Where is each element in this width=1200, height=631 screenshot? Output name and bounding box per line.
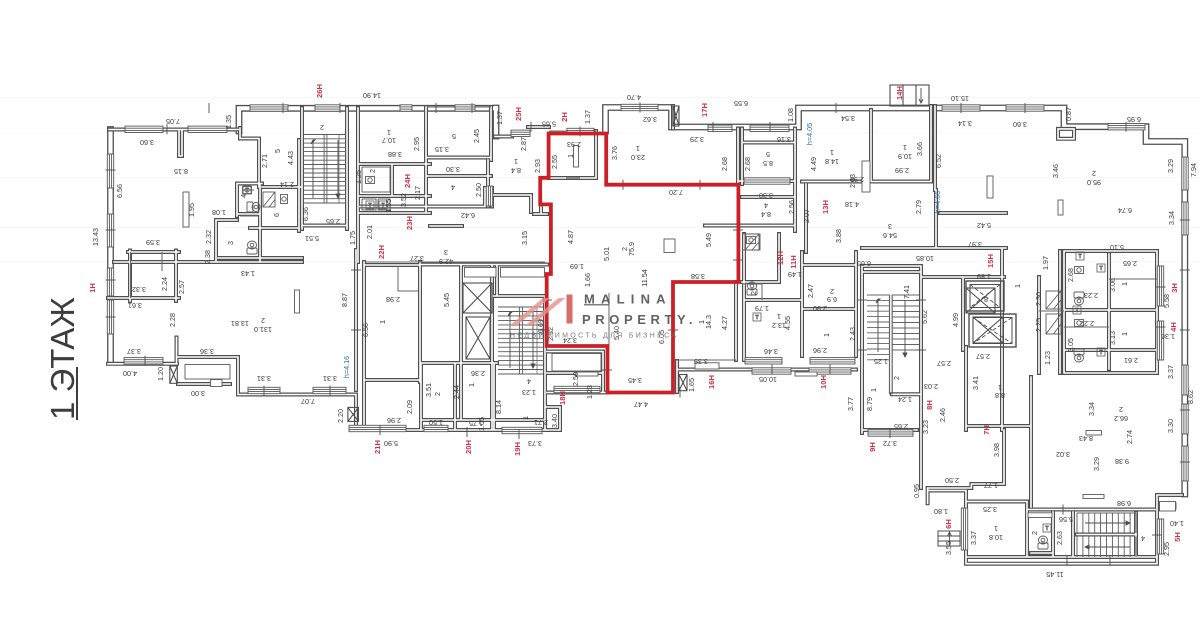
stairs <box>303 135 1136 558</box>
svg-text:3.73: 3.73 <box>528 439 542 448</box>
svg-text:25Н: 25Н <box>514 107 523 121</box>
svg-text:2.93: 2.93 <box>567 140 581 149</box>
svg-text:2.01: 2.01 <box>365 225 374 239</box>
svg-text:13Н: 13Н <box>821 200 830 214</box>
svg-text:3.88: 3.88 <box>388 150 402 159</box>
svg-text:2.68: 2.68 <box>743 157 752 171</box>
svg-text:T: T <box>1099 350 1102 356</box>
svg-text:1.75: 1.75 <box>348 231 357 245</box>
svg-text:2.25: 2.25 <box>1034 318 1043 332</box>
svg-text:14Н: 14Н <box>895 86 904 100</box>
svg-text:2.20: 2.20 <box>336 409 345 423</box>
svg-text:3.05: 3.05 <box>1066 338 1075 352</box>
svg-text:8.87: 8.87 <box>340 293 349 307</box>
svg-text:10.7: 10.7 <box>382 136 396 145</box>
svg-text:4: 4 <box>527 377 531 386</box>
svg-text:1: 1 <box>830 148 834 157</box>
svg-text:6.52: 6.52 <box>934 154 943 168</box>
svg-text:3Н: 3Н <box>1170 283 1179 293</box>
svg-text:2.57: 2.57 <box>937 359 951 368</box>
svg-text:2.99: 2.99 <box>895 166 909 175</box>
svg-text:3.39: 3.39 <box>694 357 708 366</box>
svg-text:3.23: 3.23 <box>921 420 930 434</box>
scan artifact lines <box>0 97 1200 99</box>
svg-text:9.38: 9.38 <box>1115 457 1129 466</box>
svg-text:T: T <box>368 203 371 209</box>
svg-text:1.23: 1.23 <box>1043 351 1052 365</box>
svg-text:3.16: 3.16 <box>777 135 791 144</box>
svg-text:1: 1 <box>903 143 907 152</box>
svg-text:3.29: 3.29 <box>1092 457 1101 471</box>
svg-text:7.20: 7.20 <box>669 188 683 197</box>
svg-text:1: 1 <box>1120 282 1129 286</box>
svg-text:4Н: 4Н <box>1169 322 1178 332</box>
svg-text:4.55: 4.55 <box>783 316 792 330</box>
svg-text:8.79: 8.79 <box>865 397 874 411</box>
svg-text:7.94: 7.94 <box>1189 163 1198 177</box>
red unit labels <box>88 84 1182 542</box>
svg-text:2: 2 <box>433 392 442 396</box>
svg-text:6Н: 6Н <box>944 519 953 529</box>
svg-text:2: 2 <box>1030 531 1039 535</box>
svg-text:2.36: 2.36 <box>471 369 485 378</box>
svg-text:3.60: 3.60 <box>1013 120 1027 129</box>
svg-text:2: 2 <box>892 376 901 380</box>
svg-text:1.69: 1.69 <box>570 262 584 271</box>
svg-text:3.06: 3.06 <box>1108 278 1117 292</box>
svg-text:19Н: 19Н <box>513 442 522 456</box>
svg-text:2.50: 2.50 <box>571 372 580 386</box>
svg-text:1.25: 1.25 <box>354 170 363 184</box>
dimension labels <box>91 91 1198 579</box>
svg-text:20Н: 20Н <box>464 440 473 454</box>
svg-text:2.17: 2.17 <box>413 186 422 200</box>
svg-text:3.30: 3.30 <box>1166 419 1175 433</box>
svg-text:3.46: 3.46 <box>1051 164 1060 178</box>
svg-text:21Н: 21Н <box>373 440 382 454</box>
svg-text:8.15: 8.15 <box>174 167 188 176</box>
svg-text:2Н: 2Н <box>560 112 569 122</box>
shafts / crossed boxes <box>170 106 1003 421</box>
svg-text:5.56: 5.56 <box>1059 515 1073 524</box>
svg-text:6.56: 6.56 <box>361 323 370 337</box>
svg-text:131.0: 131.0 <box>254 325 272 334</box>
svg-text:3.37: 3.37 <box>127 347 141 356</box>
svg-text:2.23: 2.23 <box>1084 291 1098 300</box>
svg-text:3.97: 3.97 <box>968 240 982 249</box>
pilaster slots <box>185 146 1176 518</box>
svg-text:2.57: 2.57 <box>177 280 186 294</box>
svg-text:2: 2 <box>830 287 834 296</box>
svg-text:T: T <box>755 315 758 321</box>
svg-text:2.43: 2.43 <box>848 327 857 341</box>
svg-text:2.65: 2.65 <box>1123 259 1137 268</box>
svg-text:4: 4 <box>239 194 248 198</box>
svg-text:3.34: 3.34 <box>1167 211 1176 225</box>
svg-text:3.15: 3.15 <box>435 145 449 154</box>
svg-text:MALINA: MALINA <box>584 292 672 307</box>
svg-text:3.30: 3.30 <box>446 165 460 174</box>
svg-text:1.40: 1.40 <box>1170 519 1184 528</box>
svg-text:2.50: 2.50 <box>945 476 959 485</box>
svg-text:2.55: 2.55 <box>550 155 559 169</box>
svg-text:6.42: 6.42 <box>461 211 475 220</box>
svg-text:2.71: 2.71 <box>534 418 548 427</box>
svg-text:6.95: 6.95 <box>1127 115 1141 124</box>
svg-text:2.14: 2.14 <box>280 180 294 189</box>
svg-text:3.15: 3.15 <box>520 231 529 245</box>
svg-text:8.43: 8.43 <box>1079 434 1093 443</box>
svg-text:2.61: 2.61 <box>1124 356 1138 365</box>
svg-text:10.8: 10.8 <box>989 533 1003 542</box>
svg-text:3.62: 3.62 <box>643 115 657 124</box>
svg-text:3.36: 3.36 <box>200 347 214 356</box>
red selection polygon <box>540 134 738 393</box>
svg-text:3.27: 3.27 <box>410 254 424 263</box>
svg-text:95.0: 95.0 <box>1087 178 1101 187</box>
svg-text:1: 1 <box>387 128 391 137</box>
svg-text:2.96: 2.96 <box>387 416 401 425</box>
svg-text:17Н: 17Н <box>700 103 709 117</box>
svg-text:3.13: 3.13 <box>1108 331 1117 345</box>
svg-text:h=4.66: h=4.66 <box>933 191 942 213</box>
svg-text:2.09: 2.09 <box>405 400 414 414</box>
svg-text:2.93: 2.93 <box>533 159 542 173</box>
svg-text:3.37: 3.37 <box>1166 365 1175 379</box>
svg-text:5.90: 5.90 <box>384 439 398 448</box>
svg-text:3.29: 3.29 <box>690 135 704 144</box>
svg-text:6.9: 6.9 <box>827 295 837 304</box>
svg-text:1.77: 1.77 <box>984 481 998 490</box>
svg-text:5.42: 5.42 <box>977 221 991 230</box>
svg-text:3.88: 3.88 <box>834 229 843 243</box>
svg-text:T: T <box>1075 308 1078 314</box>
entry steps 6H <box>938 531 960 546</box>
dimension ticks <box>106 103 1190 566</box>
svg-text:2.50: 2.50 <box>474 183 483 197</box>
svg-text:18Н: 18Н <box>558 391 567 405</box>
svg-text:13.43: 13.43 <box>91 228 100 246</box>
svg-text:3.31: 3.31 <box>257 374 271 383</box>
svg-text:2.24: 2.24 <box>160 277 169 291</box>
svg-text:10.9: 10.9 <box>898 152 912 161</box>
svg-text:T: T <box>245 188 248 194</box>
svg-text:1.37: 1.37 <box>583 110 592 124</box>
svg-text:3.76: 3.76 <box>610 146 619 160</box>
svg-text:1.35: 1.35 <box>224 115 233 129</box>
svg-text:3.25: 3.25 <box>983 505 997 514</box>
svg-text:3.31: 3.31 <box>323 374 337 383</box>
floor title 1 ЭТАЖ <box>44 297 81 420</box>
svg-text:1.23: 1.23 <box>522 388 536 397</box>
svg-text:2.87: 2.87 <box>519 137 528 151</box>
svg-text:14.90: 14.90 <box>363 91 381 100</box>
svg-text:3.66: 3.66 <box>915 142 924 156</box>
svg-text:1.08: 1.08 <box>212 208 226 217</box>
svg-text:1: 1 <box>869 388 878 392</box>
svg-text:8.5: 8.5 <box>763 159 773 168</box>
svg-text:3.59: 3.59 <box>146 238 160 247</box>
svg-text:2.57: 2.57 <box>976 352 990 361</box>
svg-text:4.87: 4.87 <box>566 230 575 244</box>
svg-text:11.54: 11.54 <box>640 269 649 286</box>
svg-text:1.66: 1.66 <box>583 273 592 287</box>
svg-text:2.46: 2.46 <box>938 408 947 422</box>
svg-text:1: 1 <box>994 524 998 533</box>
svg-text:НЕДВИЖИМОСТЬ ДЛЯ БИЗНЕСА: НЕДВИЖИМОСТЬ ДЛЯ БИЗНЕСА <box>510 333 678 340</box>
svg-text:2: 2 <box>261 316 265 325</box>
svg-text:1 ЭТАЖ: 1 ЭТАЖ <box>44 297 81 420</box>
svg-text:3.41: 3.41 <box>971 376 980 390</box>
svg-text:1: 1 <box>1120 332 1129 336</box>
svg-text:1.08: 1.08 <box>786 108 795 122</box>
svg-text:2.30: 2.30 <box>1034 292 1043 306</box>
svg-text:54.6: 54.6 <box>883 231 897 240</box>
svg-text:2.38: 2.38 <box>203 250 212 264</box>
svg-text:2: 2 <box>1092 169 1096 178</box>
svg-text:1.43: 1.43 <box>241 269 255 278</box>
svg-text:2.45: 2.45 <box>472 129 481 143</box>
svg-text:1: 1 <box>1013 284 1022 288</box>
svg-text:1: 1 <box>566 154 575 158</box>
svg-text:10Н: 10Н <box>819 375 828 389</box>
svg-text:8.62: 8.62 <box>1186 390 1195 404</box>
svg-text:8.14: 8.14 <box>494 400 503 414</box>
watermark logo (red mountain stripes) <box>509 295 573 327</box>
svg-text:15Н: 15Н <box>986 254 995 268</box>
wall symbols T-boxes <box>243 186 1105 532</box>
svg-text:12Н: 12Н <box>776 251 785 265</box>
svg-text:11.45: 11.45 <box>1046 570 1063 579</box>
svg-text:T: T <box>1045 526 1048 532</box>
svg-text:3.51: 3.51 <box>424 383 433 397</box>
svg-text:1.79: 1.79 <box>755 304 769 313</box>
bathroom fixtures <box>243 177 1085 550</box>
svg-text:1: 1 <box>777 312 781 321</box>
svg-text:1: 1 <box>998 383 1002 392</box>
svg-text:4.43: 4.43 <box>286 151 295 165</box>
svg-text:3.98: 3.98 <box>992 443 1001 457</box>
svg-text:4.70: 4.70 <box>627 93 641 102</box>
main interior walls (double line) <box>108 106 1182 564</box>
svg-text:8Н: 8Н <box>925 400 934 410</box>
svg-text:3.77: 3.77 <box>846 397 855 411</box>
svg-text:4.49: 4.49 <box>809 157 818 171</box>
svg-text:6: 6 <box>272 213 281 217</box>
svg-text:14.8: 14.8 <box>825 157 839 166</box>
svg-text:2.22: 2.22 <box>1080 319 1094 328</box>
svg-text:6.98: 6.98 <box>1117 499 1131 508</box>
svg-text:4.27: 4.27 <box>720 316 729 330</box>
svg-text:2: 2 <box>1119 405 1123 414</box>
svg-text:2.56: 2.56 <box>787 200 796 214</box>
svg-text:1.89: 1.89 <box>977 272 991 281</box>
svg-text:2.98: 2.98 <box>386 295 400 304</box>
svg-text:2.65: 2.65 <box>894 422 908 431</box>
svg-text:3: 3 <box>444 248 448 257</box>
svg-text:5.01: 5.01 <box>602 247 611 261</box>
svg-text:3.32: 3.32 <box>132 285 146 294</box>
svg-text:2.99: 2.99 <box>850 175 864 184</box>
svg-text:6.36: 6.36 <box>301 207 310 221</box>
watermark text MALINA PROPERTY <box>510 292 697 340</box>
svg-text:3.29: 3.29 <box>1166 159 1175 173</box>
svg-text:2.74: 2.74 <box>1125 430 1134 444</box>
svg-text:2.79: 2.79 <box>914 200 923 214</box>
svg-text:5.58: 5.58 <box>1162 294 1171 308</box>
svg-text:2.44: 2.44 <box>452 385 461 399</box>
svg-text:2.47: 2.47 <box>806 284 815 298</box>
svg-text:0.95: 0.95 <box>912 484 921 498</box>
svg-text:h=4.05: h=4.05 <box>805 123 814 145</box>
svg-text:4: 4 <box>764 201 768 210</box>
svg-text:42.9: 42.9 <box>439 257 453 266</box>
svg-text:1.55: 1.55 <box>384 199 393 213</box>
svg-text:22Н: 22Н <box>377 245 386 259</box>
svg-text:10.05: 10.05 <box>759 375 777 384</box>
svg-text:2.90: 2.90 <box>813 304 827 313</box>
svg-text:2: 2 <box>749 291 758 295</box>
svg-text:3.45: 3.45 <box>628 376 642 385</box>
svg-text:7.41: 7.41 <box>902 285 911 299</box>
svg-text:11Н: 11Н <box>789 255 798 269</box>
svg-text:3.34: 3.34 <box>1087 402 1096 416</box>
svg-text:T: T <box>1099 266 1102 272</box>
svg-text:3.46: 3.46 <box>764 347 778 356</box>
svg-text:7.07: 7.07 <box>301 397 315 406</box>
svg-text:3.52: 3.52 <box>399 193 408 207</box>
svg-text:2: 2 <box>320 123 324 132</box>
svg-text:24Н: 24Н <box>403 174 412 188</box>
svg-text:1: 1 <box>467 383 476 387</box>
svg-text:5Н: 5Н <box>1173 532 1182 542</box>
svg-text:3: 3 <box>226 241 235 245</box>
svg-text:2.96: 2.96 <box>813 346 827 355</box>
svg-text:2.28: 2.28 <box>168 313 177 327</box>
svg-text:1: 1 <box>514 157 518 166</box>
svg-text:PROPERTY.: PROPERTY. <box>582 312 697 327</box>
svg-text:2.71: 2.71 <box>260 154 269 168</box>
svg-text:8: 8 <box>984 295 988 304</box>
svg-text:4: 4 <box>1141 534 1145 543</box>
svg-text:15.10: 15.10 <box>951 94 969 103</box>
svg-text:3.02: 3.02 <box>1056 450 1070 459</box>
entry 14H <box>890 85 929 106</box>
svg-text:1.25: 1.25 <box>874 357 888 366</box>
svg-text:9Н: 9Н <box>868 442 877 452</box>
svg-text:3.60: 3.60 <box>140 138 154 147</box>
svg-text:5: 5 <box>766 150 770 159</box>
svg-text:13.81: 13.81 <box>231 319 249 328</box>
svg-text:3.54: 3.54 <box>841 114 855 123</box>
svg-text:23Н: 23Н <box>405 216 414 230</box>
elevator shafts <box>966 281 1016 347</box>
svg-text:3.37: 3.37 <box>969 531 978 545</box>
svg-text:4.47: 4.47 <box>634 400 648 409</box>
svg-text:5: 5 <box>273 149 282 153</box>
svg-text:5.51: 5.51 <box>305 234 319 243</box>
svg-text:7.05: 7.05 <box>166 117 180 126</box>
svg-text:2.63: 2.63 <box>1055 531 1064 545</box>
svg-text:3.14: 3.14 <box>958 119 972 128</box>
blue height labels <box>342 123 942 378</box>
svg-text:5.62: 5.62 <box>920 310 929 324</box>
svg-text:1.37: 1.37 <box>495 111 504 125</box>
svg-text:2.65: 2.65 <box>326 217 340 226</box>
showers <box>263 192 1061 334</box>
svg-text:8.4: 8.4 <box>761 210 771 219</box>
svg-text:1Н: 1Н <box>88 283 97 293</box>
exterior envelope walls (double band) <box>111 108 1185 495</box>
svg-text:2: 2 <box>368 169 377 173</box>
svg-text:1.05: 1.05 <box>477 417 486 431</box>
svg-text:1: 1 <box>521 416 530 420</box>
svg-text:5.49: 5.49 <box>704 233 713 247</box>
svg-text:1.20: 1.20 <box>156 367 165 381</box>
svg-text:5.65: 5.65 <box>542 120 556 129</box>
svg-text:2.68: 2.68 <box>1066 268 1075 282</box>
svg-text:3.58: 3.58 <box>691 272 705 281</box>
svg-text:1.24: 1.24 <box>898 395 912 404</box>
svg-text:h=4.16: h=4.16 <box>342 356 351 378</box>
thin partition walls <box>131 107 1158 513</box>
svg-text:1.65: 1.65 <box>687 378 696 392</box>
svg-text:2.32: 2.32 <box>204 230 213 244</box>
svg-text:6.74: 6.74 <box>1118 206 1132 215</box>
svg-text:3.30: 3.30 <box>759 191 773 200</box>
svg-text:26Н: 26Н <box>315 84 324 98</box>
svg-text:5.10: 5.10 <box>1110 243 1124 252</box>
svg-text:66.2: 66.2 <box>1114 414 1128 423</box>
svg-text:2.68: 2.68 <box>720 157 729 171</box>
svg-text:3: 3 <box>888 222 892 231</box>
svg-text:3.00: 3.00 <box>191 389 205 398</box>
svg-text:1.49: 1.49 <box>788 270 802 279</box>
stair arrows <box>311 140 1130 549</box>
svg-text:6.65: 6.65 <box>857 259 871 268</box>
svg-text:3.61: 3.61 <box>128 301 142 310</box>
svg-text:14.3: 14.3 <box>704 315 713 329</box>
windows horizontal <box>107 104 1188 554</box>
svg-text:5: 5 <box>452 132 456 141</box>
svg-text:1: 1 <box>636 144 640 153</box>
svg-text:75.9: 75.9 <box>627 242 636 256</box>
svg-text:1.23: 1.23 <box>585 385 594 399</box>
svg-text:10.85: 10.85 <box>916 254 934 263</box>
svg-text:1.50: 1.50 <box>429 418 443 427</box>
svg-text:23.0: 23.0 <box>631 153 645 162</box>
svg-text:4.18: 4.18 <box>845 200 859 209</box>
svg-text:4.00: 4.00 <box>123 369 137 378</box>
svg-text:8.8: 8.8 <box>995 391 1005 400</box>
svg-text:5.45: 5.45 <box>442 293 451 307</box>
svg-text:2.07: 2.07 <box>802 209 811 223</box>
svg-text:1: 1 <box>378 320 387 324</box>
svg-text:7Н: 7Н <box>982 425 991 435</box>
svg-text:3.40: 3.40 <box>550 414 559 428</box>
svg-text:0.87: 0.87 <box>1064 107 1073 121</box>
svg-text:6.55: 6.55 <box>734 99 748 108</box>
svg-text:6.56: 6.56 <box>115 184 124 198</box>
svg-text:1: 1 <box>822 333 831 337</box>
svg-text:1.95: 1.95 <box>187 203 196 217</box>
svg-text:16Н: 16Н <box>707 375 716 389</box>
svg-text:2.95: 2.95 <box>1162 542 1171 556</box>
svg-text:3.72: 3.72 <box>883 439 897 448</box>
windows vertical <box>107 154 113 188</box>
svg-text:4.99: 4.99 <box>951 313 960 327</box>
svg-text:8.4: 8.4 <box>511 166 521 175</box>
